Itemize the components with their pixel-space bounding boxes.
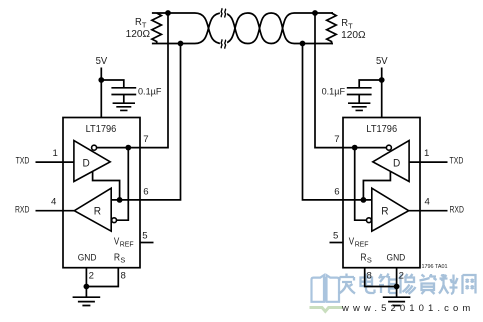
5V node dot (98, 77, 104, 83)
svg-text:V: V (349, 236, 355, 247)
svg-text:0.1µF: 0.1µF (138, 86, 162, 97)
svg-text:5: 5 (142, 231, 147, 242)
pin 7 wire (bubble to bus A) (97, 13, 168, 148)
ground symbol (73, 287, 101, 306)
wire 5V node to capacitor (101, 80, 124, 88)
svg-text:RXD: RXD (15, 204, 29, 215)
cable break squiggles bottom (221, 39, 225, 48)
junction dot bus B top (178, 41, 184, 47)
svg-text:6: 6 (334, 187, 339, 198)
driver output bubble (92, 145, 97, 150)
svg-text:1796 TA01: 1796 TA01 (422, 264, 448, 270)
svg-text:7: 7 (334, 134, 339, 145)
svg-text:8: 8 (121, 270, 126, 281)
twisted pair wire B (bottom-left to bottom-right) (152, 13, 333, 44)
svg-text:1: 1 (53, 148, 58, 159)
cable break squiggles top (221, 8, 225, 17)
svg-text:8: 8 (367, 270, 372, 281)
svg-text:LT1796: LT1796 (366, 124, 397, 135)
svg-text:GND: GND (78, 252, 97, 263)
svg-text:R: R (135, 17, 142, 28)
watermark book ribbon (310, 308, 344, 312)
svg-text:120Ω: 120Ω (341, 30, 365, 41)
driver feedback step wire (93, 172, 120, 200)
svg-text:LT1796: LT1796 (86, 124, 117, 135)
watermark chinese text 家电维修资料网 (339, 274, 476, 295)
pin 1 TXD wire (36, 161, 74, 163)
svg-text:V: V (114, 236, 120, 247)
receiver R triangle (74, 188, 111, 231)
svg-text:5: 5 (333, 231, 338, 242)
watermark book icon (312, 275, 340, 302)
capacitor C1 0.1uF (111, 88, 136, 103)
pin 2 GND wire (85, 268, 87, 287)
LEFT transceiver graphics (36, 10, 184, 305)
svg-text:www.520101.com: www.520101.com (341, 303, 474, 314)
svg-text:TXD: TXD (450, 156, 464, 167)
IC box U1 (63, 118, 140, 268)
svg-text:2: 2 (399, 270, 404, 281)
svg-text:R: R (360, 252, 366, 263)
resistor RT right (327, 13, 337, 44)
cable break gap bottom (220, 38, 227, 50)
svg-text:R: R (381, 205, 388, 217)
svg-text:1: 1 (424, 148, 429, 159)
resistor RT left (152, 13, 162, 44)
svg-text:TXD: TXD (16, 156, 30, 167)
pin 3 VCC wire to 5V (100, 68, 102, 118)
svg-text:120Ω: 120Ω (126, 29, 150, 40)
svg-text:RXD: RXD (450, 204, 464, 215)
junction dot gnd (84, 284, 90, 290)
receiver input bubble (112, 218, 117, 223)
svg-text:0.1µF: 0.1µF (322, 86, 346, 97)
RIGHT transceiver graphics (mirror) (300, 10, 448, 305)
pin 4 RXD wire (36, 210, 75, 212)
ground for capacitor (113, 103, 135, 110)
svg-text:REF: REF (120, 240, 134, 249)
svg-text:T: T (348, 22, 353, 31)
svg-text:T: T (142, 21, 147, 30)
svg-text:S: S (120, 256, 125, 265)
junction dot pin6 inner (117, 197, 123, 203)
svg-text:R: R (94, 205, 101, 217)
junction dot bus A top (165, 10, 171, 16)
pin 6 wire (R input to bus B) (111, 44, 180, 200)
twisted pair wire A (top-left to top-right) (152, 13, 333, 44)
svg-text:REF: REF (355, 240, 369, 249)
svg-text:R: R (114, 252, 120, 263)
svg-text:4: 4 (51, 196, 57, 207)
svg-text:GND: GND (387, 252, 406, 263)
svg-text:5V: 5V (96, 55, 108, 67)
pin 8 RS wire (86, 268, 118, 287)
svg-text:D: D (83, 158, 90, 170)
pin 5 VREF stub (140, 242, 154, 244)
driver D triangle (74, 141, 110, 182)
svg-text:S: S (367, 256, 372, 265)
svg-text:4: 4 (425, 196, 431, 207)
svg-text:7: 7 (143, 134, 148, 145)
svg-text:6: 6 (143, 187, 148, 198)
inner bus wire (pin7 line to R inverting input) (117, 148, 129, 221)
junction dot pin7 inner (125, 145, 131, 151)
svg-text:5V: 5V (376, 55, 388, 67)
cable break gap top (220, 7, 227, 19)
svg-text:R: R (341, 18, 348, 29)
svg-text:2: 2 (89, 270, 94, 281)
svg-text:D: D (393, 158, 400, 170)
